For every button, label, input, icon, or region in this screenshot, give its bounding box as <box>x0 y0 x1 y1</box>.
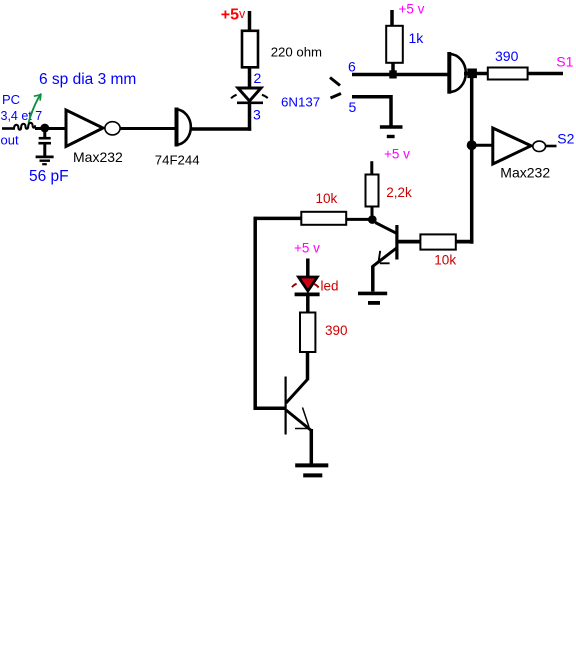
svg-text:S1: S1 <box>556 54 573 70</box>
node junction square on pin6 <box>389 70 396 78</box>
svg-text:390: 390 <box>325 323 348 338</box>
wire buffer to 74F244 <box>120 127 176 130</box>
node junction dot at C1 <box>40 124 49 133</box>
svg-text:10k: 10k <box>434 252 456 267</box>
svg-text:390: 390 <box>495 48 519 64</box>
wire LED cathode down to corner <box>248 103 252 131</box>
resistor R4 2,2k <box>366 175 379 207</box>
wire pin 6 to gate <box>352 73 449 77</box>
resistor R7 390 <box>300 313 315 353</box>
wire +5V to LED D2 <box>306 259 310 279</box>
wire junction to capacitor <box>43 128 46 138</box>
wire node to Q1 base diagonal <box>375 223 397 234</box>
svg-text:+5 v: +5 v <box>399 2 425 17</box>
wire Q2 base horizontal <box>254 407 287 411</box>
op-amp buffer U4 Max232 <box>66 110 120 147</box>
wire inverter to S2 <box>546 145 557 148</box>
wire R6 to bus <box>456 240 474 244</box>
svg-text:56 pF: 56 pF <box>29 168 69 185</box>
svg-text:220 ohm: 220 ohm <box>271 44 322 59</box>
LED D2 red <box>292 277 320 294</box>
wire R3 to S1 <box>528 72 564 76</box>
LED D1 (6N137 input diode) <box>231 88 268 103</box>
node junction dot base node <box>368 215 377 224</box>
svg-text:3,4 et 7: 3,4 et 7 <box>1 109 43 123</box>
inductor L1 (ferrite coil) <box>14 123 35 130</box>
svg-text:Max232: Max232 <box>73 149 123 165</box>
svg-text:PC: PC <box>2 92 20 107</box>
svg-text:6 sp dia 3 mm: 6 sp dia 3 mm <box>39 71 136 88</box>
wire pin 5 <box>352 95 391 126</box>
svg-text:10k: 10k <box>316 191 338 206</box>
green annotation arrow <box>29 94 42 124</box>
resistor R6 10k <box>420 234 455 249</box>
svg-text:v: v <box>239 7 246 21</box>
wire +5V to R2 <box>390 10 394 27</box>
wire R5 to corner <box>254 217 302 221</box>
svg-text:Max232: Max232 <box>500 165 550 181</box>
node junction square gate output <box>467 69 477 79</box>
wire coil to buffer <box>35 127 66 130</box>
ground (Q1) <box>358 293 387 303</box>
transistor Q1 <box>373 225 397 266</box>
svg-text:+5: +5 <box>221 6 239 23</box>
buffer U5 74F244 (D gate) <box>177 108 191 147</box>
optocoupler light dash 2 <box>331 94 342 99</box>
svg-text:5: 5 <box>349 99 357 115</box>
svg-text:2: 2 <box>254 70 262 86</box>
ground (C1) <box>36 157 54 164</box>
node junction dot S2 tap <box>467 140 477 150</box>
svg-text:1k: 1k <box>409 30 425 46</box>
svg-text:6: 6 <box>348 59 356 75</box>
wire Q1 collector to R6 <box>398 240 421 244</box>
capacitor C1 56pF <box>38 138 51 143</box>
svg-text:S2: S2 <box>557 131 574 147</box>
wire capacitor to ground <box>43 144 46 157</box>
svg-text:2,2k: 2,2k <box>386 185 412 200</box>
wire vertical bus from gate output down <box>470 77 474 244</box>
wire junction to inverter <box>476 144 493 147</box>
svg-text:led: led <box>321 279 339 294</box>
resistor R3 390 <box>488 68 528 80</box>
wire +5V to R1 <box>248 11 252 33</box>
wire Q1 emitter down <box>371 266 375 292</box>
wire diagonal to Q2 collector <box>286 379 308 403</box>
resistor R1 220 ohm <box>242 31 258 68</box>
net +5V top label <box>221 6 246 23</box>
ground (Q2) <box>295 465 328 475</box>
svg-text:+5 v: +5 v <box>384 147 410 162</box>
resistor R2 1k <box>386 26 403 63</box>
svg-text:74F244: 74F244 <box>155 152 200 167</box>
wire Q2 emitter down <box>310 429 314 465</box>
wire node to R5 <box>346 218 369 221</box>
wire R4 to node <box>371 206 374 219</box>
optocoupler light dash 1 <box>330 78 340 86</box>
op-amp inverter U3 Max232 <box>493 128 546 164</box>
wire corner vertical down to Q2 base <box>253 217 257 410</box>
wire 74F244 output to LED column <box>191 127 251 131</box>
svg-text:6N137: 6N137 <box>281 95 320 110</box>
svg-text:+5 v: +5 v <box>294 241 320 256</box>
wire D2 to R7 <box>306 294 310 314</box>
svg-text:3: 3 <box>253 107 261 123</box>
wire input stub <box>2 127 15 130</box>
wire +5V to R4 <box>370 161 373 176</box>
wire R1 to LED anode <box>248 66 252 89</box>
resistor R5 10k <box>301 212 346 225</box>
svg-text:out: out <box>1 132 19 147</box>
wire gate output <box>464 72 488 76</box>
wire R7 down <box>306 351 310 380</box>
ground (pin 5) <box>380 127 403 137</box>
transistor Q2 <box>286 377 312 435</box>
wire R2 to pin6 node <box>391 62 395 77</box>
buffer U2 (6N137 output gate) <box>449 52 466 94</box>
